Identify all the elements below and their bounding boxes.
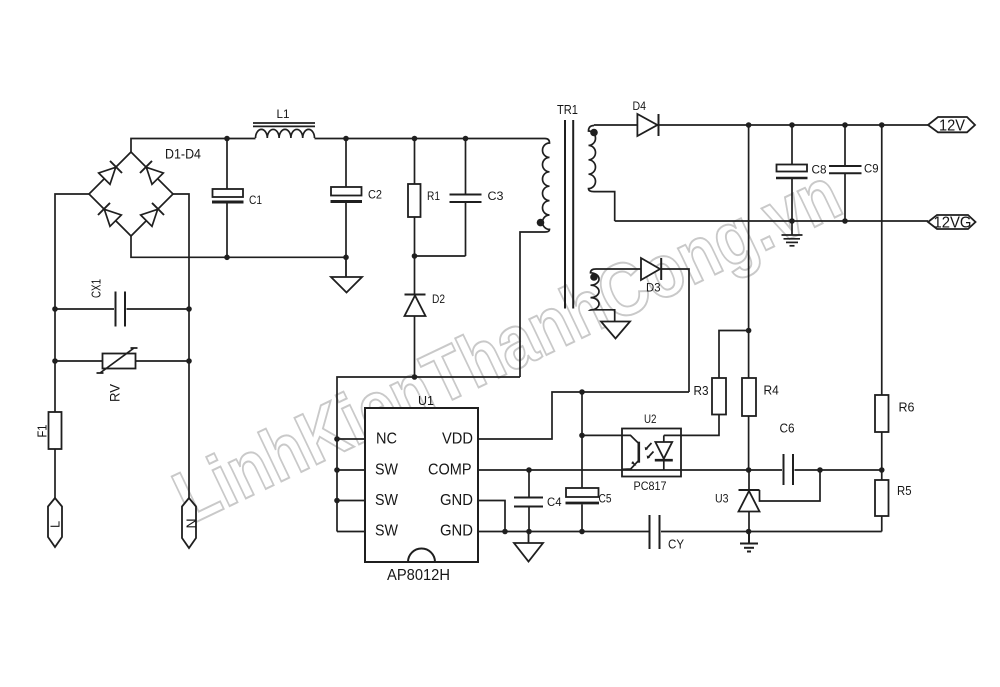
junction dots bottom bus bbox=[224, 254, 349, 260]
capacitor C5 bbox=[566, 392, 600, 532]
svg-text:RV: RV bbox=[107, 383, 123, 402]
watermark LinhKienThanhCong.vn bbox=[161, 151, 853, 540]
wire VDD pin bbox=[478, 392, 689, 439]
svg-text:GND: GND bbox=[440, 523, 473, 540]
svg-text:L: L bbox=[48, 521, 63, 528]
svg-text:C6: C6 bbox=[780, 422, 795, 436]
zener U3 bbox=[739, 470, 821, 532]
wire N line right bbox=[173, 194, 189, 498]
wire L line left bbox=[55, 194, 89, 498]
svg-text:CX1: CX1 bbox=[89, 279, 104, 298]
wire U2 collector to C5/VDD line bbox=[582, 434, 622, 436]
wire SW pin 2 bbox=[337, 500, 365, 502]
wire C6 to R5/R6 junction bbox=[820, 469, 882, 471]
wire 12V rail bbox=[659, 124, 929, 126]
svg-text:L1: L1 bbox=[277, 107, 290, 121]
secondary winding bbox=[589, 126, 615, 222]
diode D4 bbox=[637, 114, 658, 136]
terminal N bbox=[182, 498, 196, 548]
resistor R4 bbox=[742, 125, 756, 470]
capacitor C1 bbox=[212, 139, 244, 258]
capacitor C4 bbox=[514, 470, 543, 532]
capacitor C8 bbox=[776, 125, 808, 221]
primary winding bbox=[520, 139, 550, 378]
svg-text:F1: F1 bbox=[35, 425, 50, 438]
aux winding bbox=[591, 269, 615, 322]
junction dot VDD line bbox=[579, 389, 585, 395]
light arrows bbox=[646, 443, 654, 458]
capacitor CY bbox=[650, 515, 882, 549]
LED inside U2 bbox=[663, 435, 665, 442]
node dots L/N lines bbox=[52, 306, 192, 364]
tag 12V bbox=[928, 117, 975, 135]
svg-text:R1: R1 bbox=[427, 189, 440, 203]
ground under C4 bbox=[514, 532, 543, 562]
svg-text:12VG: 12VG bbox=[934, 215, 972, 232]
wire aux to D3 bbox=[596, 268, 641, 270]
svg-text:C8: C8 bbox=[812, 163, 827, 177]
svg-text:D2: D2 bbox=[432, 294, 445, 306]
tag 12VG bbox=[928, 215, 976, 232]
wire U2 LED anode to R3 bbox=[664, 415, 719, 436]
svg-text:C9: C9 bbox=[864, 162, 879, 176]
wire R1/C3 junction to D2 bbox=[415, 256, 466, 295]
ground under C2 bbox=[331, 257, 362, 292]
resistor R5 bbox=[875, 470, 889, 532]
junction dots top bus bbox=[224, 136, 468, 142]
IC U1 AP8012H bbox=[365, 408, 478, 562]
core lines bbox=[564, 120, 566, 309]
junction dots SW rail bbox=[334, 436, 340, 503]
svg-text:N: N bbox=[183, 518, 199, 528]
capacitor C9 bbox=[829, 125, 862, 221]
svg-text:NC: NC bbox=[376, 431, 397, 448]
svg-text:C5: C5 bbox=[599, 492, 612, 506]
ground under aux winding bbox=[601, 322, 630, 339]
wire GND rail bottom bbox=[478, 531, 649, 533]
wire COMP pin bbox=[478, 469, 749, 471]
svg-text:U1: U1 bbox=[418, 394, 434, 408]
junction dot collector line bbox=[579, 433, 585, 439]
phase dot secondary bbox=[590, 129, 598, 137]
svg-text:U3: U3 bbox=[715, 494, 729, 506]
svg-text:CY: CY bbox=[668, 537, 684, 552]
junction dot R3/R4 bbox=[746, 328, 752, 334]
svg-text:C1: C1 bbox=[249, 193, 262, 207]
capacitor C6 bbox=[749, 454, 820, 485]
svg-text:R6: R6 bbox=[899, 400, 915, 415]
svg-text:SW: SW bbox=[375, 462, 398, 479]
junction dots 12V rail bbox=[746, 122, 885, 128]
phototransistor inside U2 bbox=[637, 442, 640, 463]
svg-text:U2: U2 bbox=[644, 414, 657, 426]
wire top bus from bridge to L1 bbox=[131, 139, 256, 153]
wire D3 to VDD rail bbox=[661, 269, 689, 392]
wire bottom bus under bridge bbox=[131, 236, 346, 257]
svg-text:C2: C2 bbox=[368, 188, 382, 202]
optocoupler U2 PC817 bbox=[622, 429, 681, 477]
wire GND pin upper bbox=[478, 501, 505, 532]
phase dot primary bbox=[537, 219, 545, 227]
junction dots snubber bbox=[412, 253, 418, 380]
inductor L1 bbox=[253, 123, 315, 138]
varistor RV bbox=[55, 348, 189, 373]
junction dots GND rail bbox=[502, 529, 751, 535]
wire SW pin 1 bbox=[337, 469, 365, 471]
svg-text:VDD: VDD bbox=[442, 431, 473, 448]
wire secondary to D4 bbox=[594, 124, 637, 126]
svg-text:D1-D4: D1-D4 bbox=[165, 146, 201, 162]
diode D3 bbox=[641, 258, 661, 280]
ground under U3 bbox=[740, 532, 758, 552]
capacitor C2 bbox=[331, 139, 363, 258]
svg-text:AP8012H: AP8012H bbox=[387, 567, 450, 584]
transformer TR1 bbox=[520, 120, 615, 377]
wire D2 to SW rail bbox=[414, 316, 416, 377]
svg-text:COMP: COMP bbox=[428, 462, 472, 479]
wire SW pin 3 bbox=[337, 531, 365, 533]
svg-text:12V: 12V bbox=[939, 118, 965, 135]
svg-text:R5: R5 bbox=[897, 484, 912, 498]
svg-text:C4: C4 bbox=[547, 495, 562, 509]
wire 12VG rail bbox=[615, 220, 928, 222]
resistor R3 bbox=[712, 331, 749, 415]
fuse F1 bbox=[49, 412, 62, 449]
phase dot aux bbox=[590, 273, 598, 281]
junction dots COMP line bbox=[526, 467, 884, 473]
resistor R1 bbox=[408, 139, 421, 257]
capacitor CX1 bbox=[55, 292, 189, 327]
svg-text:SW: SW bbox=[375, 523, 398, 540]
terminal L bbox=[48, 498, 62, 547]
junction dots 12VG rail bbox=[789, 218, 848, 224]
svg-text:R4: R4 bbox=[764, 384, 779, 398]
capacitor C3 bbox=[450, 139, 482, 257]
svg-text:SW: SW bbox=[375, 492, 398, 509]
wire NC pin bbox=[337, 438, 365, 440]
svg-text:PC817: PC817 bbox=[634, 479, 667, 493]
svg-text:TR1: TR1 bbox=[557, 103, 578, 117]
svg-text:D3: D3 bbox=[646, 283, 661, 295]
svg-text:GND: GND bbox=[440, 492, 473, 509]
resistor R6 bbox=[875, 125, 889, 470]
diode D2 bbox=[405, 295, 426, 317]
bridge rectifier D1-D4 bbox=[89, 152, 173, 236]
svg-text:C3: C3 bbox=[488, 189, 504, 203]
wire top bus from L1 to transformer primary bbox=[315, 138, 546, 140]
wire SW rail horizontal bbox=[337, 377, 520, 532]
ground under C8 bbox=[782, 221, 803, 246]
svg-text:D4: D4 bbox=[633, 101, 647, 113]
svg-text:R3: R3 bbox=[694, 384, 709, 398]
